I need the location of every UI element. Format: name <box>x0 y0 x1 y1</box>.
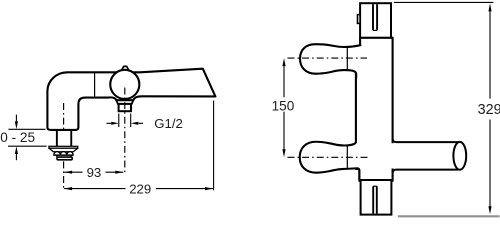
svg-text:0 - 25: 0 - 25 <box>0 130 35 145</box>
svg-text:150: 150 <box>272 98 295 113</box>
svg-text:G1/2: G1/2 <box>154 116 183 131</box>
svg-text:229: 229 <box>129 181 151 196</box>
svg-text:329: 329 <box>478 102 500 118</box>
svg-text:93: 93 <box>87 165 102 180</box>
